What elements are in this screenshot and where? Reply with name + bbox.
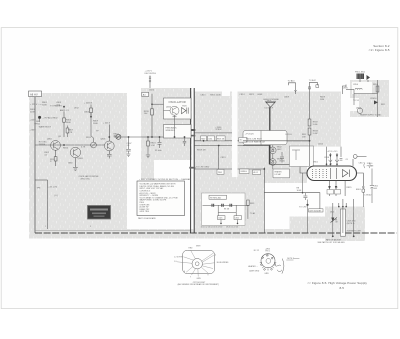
node dot at x=91: [90, 116, 92, 118]
rectifier V802 (upper circle): [270, 141, 277, 159]
board lower edge line: [35, 229, 191, 231]
svg-text:TO V1: TO V1: [353, 100, 360, 102]
CRT rear-view outline: [183, 250, 215, 273]
svg-text:+165V: +165V: [30, 130, 37, 132]
svg-text:19 20 21 22 23: 19 20 21 22 23: [226, 227, 238, 229]
wire: right lead: [353, 207, 355, 236]
notes box: [137, 181, 185, 216]
wire: +225V drop to Q805 collector node: [108, 125, 110, 138]
wire: multiplier left lead down to cathode line: [302, 173, 304, 193]
svg-text:V899: V899: [196, 246, 200, 248]
svg-text:TO A10: TO A10: [288, 80, 296, 83]
wire: Q820 emitter: [173, 115, 177, 137]
pot R846 (dark): [331, 218, 334, 223]
svg-text:Q805: Q805: [101, 139, 107, 141]
wire: second bus across focus box: [243, 145, 270, 147]
svg-text:+ 225 V —•—: + 225 V —•—: [30, 104, 43, 106]
inner label tag: [209, 195, 227, 199]
svg-text:TP801: TP801: [34, 124, 41, 126]
capacitor C806: [280, 152, 284, 163]
transistor Q803: [70, 147, 80, 157]
anode curl: [353, 155, 357, 159]
svg-text:(HV) OSC: (HV) OSC: [81, 178, 91, 180]
svg-text:T820: T820: [182, 105, 188, 107]
gray region: top-right block: [350, 80, 389, 117]
svg-text:10 11 12 13 14 15 16 17 18: 10 11 12 13 14 15 16 17 18: [201, 227, 223, 229]
svg-text:HEATER: HEATER: [275, 170, 283, 173]
svg-text:TP802: TP802: [215, 129, 222, 131]
svg-text:E801: E801: [356, 189, 362, 191]
diode pair D2: [222, 204, 224, 207]
svg-text:ADJ: ADJ: [114, 135, 118, 138]
wire: Q803 emitter down with ground: [74, 158, 76, 167]
svg-text:R810: R810: [63, 147, 69, 149]
svg-text:PIN 1: PIN 1: [265, 251, 269, 253]
svg-text:GND: GND: [68, 162, 73, 164]
svg-text:( 0 ): ( 0 ): [54, 195, 58, 197]
resistor R836 stack: [309, 94, 311, 119]
resistor right of detail box: [247, 200, 250, 206]
wire: lower-left return lines: [47, 180, 49, 229]
svg-text:TO CRT GRID: TO CRT GRID: [196, 166, 210, 168]
transistor Q820 (oscillator): [164, 106, 180, 115]
svg-text:R818 1M: R818 1M: [217, 138, 225, 140]
spark gap E801: [362, 186, 365, 192]
component tag R818: [216, 136, 225, 141]
transformer T820 symbol: [182, 108, 187, 114]
focus network box: [243, 131, 287, 145]
svg-text:R819 1M: R819 1M: [197, 149, 206, 151]
tag D: [234, 216, 242, 220]
transistor Q805: [104, 141, 114, 151]
svg-text:C822: C822: [235, 218, 239, 220]
row of connector label tags: [217, 169, 224, 174]
svg-text:9: 9: [208, 274, 209, 276]
connector P801 (hatched plug): [357, 74, 365, 80]
svg-text:1 2 3 HTR: 1 2 3 HTR: [174, 256, 183, 258]
assembly label box A8: [29, 91, 42, 97]
node dot at x=128.5 on bus: [128, 136, 130, 138]
svg-text:6: 6: [184, 271, 185, 273]
svg-text:1: 1: [45, 226, 46, 228]
wire: +225V feed at x=91: [90, 105, 92, 109]
svg-text:A8 HV: A8 HV: [30, 92, 38, 96]
diode pair D3: [230, 204, 232, 207]
svg-text:+ SEE SCHEMATIC NOTES IN SECTI: + SEE SCHEMATIC NOTES IN SECTION — DIAGR…: [139, 178, 191, 181]
wire: lower bus right to multiplier: [270, 164, 308, 173]
svg-text:R851: R851: [381, 104, 385, 106]
svg-text:680K: 680K: [258, 94, 263, 96]
svg-text:R821: R821: [249, 94, 255, 96]
detail box internals: [203, 195, 250, 223]
svg-text:HEATER SUPPLY 6.3 VAC: HEATER SUPPLY 6.3 VAC: [360, 113, 382, 116]
svg-text:HV REG ADJ: HV REG ADJ: [210, 196, 221, 199]
svg-text:A5 J2: A5 J2: [254, 171, 259, 174]
svg-text:55 kHz: 55 kHz: [155, 150, 162, 152]
HV multiplier tube V801 (stadium shell): [307, 166, 357, 181]
svg-text:22M: 22M: [302, 137, 306, 139]
capacitor C807 on x=128.5: [128, 137, 130, 149]
svg-text:4.7K: 4.7K: [81, 146, 86, 148]
arrow into P801: [367, 75, 371, 80]
label plate (dark): [88, 206, 111, 220]
svg-text:R812: R812: [86, 137, 92, 139]
bottom-right: junction dot and leads: [306, 204, 308, 206]
connector pin marks on bar: [189, 129, 195, 131]
svg-text:FOCUS: FOCUS: [286, 134, 293, 136]
wire: TP level line: [195, 132, 233, 134]
svg-text:GRN: GRN: [264, 273, 269, 275]
capacitor C801 feed from Q801 emitter: [55, 150, 57, 156]
svg-text:DRIVE: DRIVE: [39, 144, 46, 146]
svg-text:C846: C846: [330, 211, 334, 213]
connector stub P803-3: [343, 85, 347, 95]
frame: left border wire: [34, 97, 36, 233]
wires inside top-right block: [354, 80, 378, 117]
wire: loop: [218, 205, 236, 212]
text layer: [30, 44, 390, 229]
svg-text:DECOUPLE: DECOUPLE: [145, 73, 157, 75]
closing bracket: [282, 259, 284, 274]
wire: center block drop: [218, 146, 220, 170]
svg-text:(AS VIEWED FROM REAR OF INSTRU: (AS VIEWED FROM REAR OF INSTRUMENT): [178, 283, 220, 286]
svg-text:R817: R817: [201, 138, 205, 140]
svg-text:TO CRT: TO CRT: [299, 206, 307, 208]
svg-text:1.5K: 1.5K: [151, 145, 156, 147]
junction dots at B7 top: [338, 206, 340, 208]
svg-text:7: 7: [190, 277, 191, 279]
socket right leads: [275, 265, 281, 266]
pot wiper dot R802: [38, 116, 41, 119]
svg-text:RED: RED: [189, 248, 194, 250]
svg-text:C811: C811: [208, 138, 212, 140]
wire: Q805 collector to bus: [108, 137, 110, 141]
probe bracket: [364, 163, 370, 169]
socket label tag: [309, 209, 324, 212]
svg-text:6.3 VAC: 6.3 VAC: [275, 173, 282, 176]
svg-text:CRT SOCKET: CRT SOCKET: [309, 210, 322, 212]
svg-text:+225V: +225V: [30, 119, 37, 121]
node A4 label box (middle block): [142, 92, 149, 96]
svg-text:INTENSITY LIMIT: INTENSITY LIMIT: [347, 230, 361, 232]
gray shaded circuit-board region: left block: [29, 93, 127, 229]
svg-text:2: 2: [215, 254, 216, 256]
svg-text:WINDING: WINDING: [166, 130, 176, 132]
svg-text:R839: R839: [250, 203, 254, 205]
svg-text:C850: C850: [353, 84, 359, 86]
svg-text:C810: C810: [200, 94, 206, 96]
svg-text:TO HEATER: TO HEATER: [50, 104, 62, 107]
CRT neck circle: [192, 259, 202, 269]
wire: V801 anode out right: [357, 173, 364, 186]
svg-text:C 8502: C 8502: [364, 195, 372, 197]
svg-text:C820: C820: [149, 90, 155, 92]
arrow feed into R805: [63, 106, 65, 109]
capacitor C824: [303, 193, 307, 200]
svg-text:+33 +075: +33 +075: [48, 187, 58, 189]
CRT bias channel box (white strip): [340, 209, 345, 236]
resistor R805 (vertical, on x=64 feed): [63, 111, 65, 137]
capacitor C823: [158, 137, 162, 148]
text layer 2: center and right labels: [196, 71, 385, 241]
svg-text:BLUE WIRES: BLUE WIRES: [217, 262, 229, 264]
svg-text:100K: 100K: [297, 190, 302, 192]
capacitor C812 branch: [370, 169, 374, 204]
svg-text:5.6M: 5.6M: [313, 124, 318, 126]
svg-text:<< Figure 8-5. High Voltage Po: << Figure 8-5. High Voltage Power Supply: [307, 281, 367, 285]
svg-text:P805: P805: [218, 172, 222, 174]
svg-text:(NOTE 2): (NOTE 2): [347, 223, 355, 225]
svg-text:8-2 kV P-P: 8-2 kV P-P: [265, 108, 274, 110]
resistor R820 (middle block top feed): [151, 94, 153, 109]
svg-text:Q820: Q820: [166, 106, 172, 108]
svg-text:<1> Figure 8-5: <1> Figure 8-5: [369, 48, 390, 52]
svg-text:C809: C809: [284, 97, 290, 99]
svg-text:C816: C816: [324, 157, 330, 159]
svg-text:P801 J801: P801 J801: [355, 71, 366, 73]
svg-text:10M: 10M: [320, 99, 324, 101]
svg-text:→ HV ADJ R802: → HV ADJ R802: [42, 117, 58, 120]
wire: V801 grid feeds with arrows: [327, 147, 342, 166]
svg-text:R850: R850: [373, 84, 379, 86]
wire: lower bus center: [195, 168, 265, 170]
wire: CRT cathode line: [264, 193, 320, 209]
gray region: right wide block: [238, 92, 342, 142]
oscillator box: [164, 98, 192, 119]
wire: P801 leads: [360, 79, 368, 82]
gray region: bottom-right blocks: [290, 217, 326, 239]
svg-text:5642: 5642: [277, 149, 282, 151]
svg-text:10K: 10K: [144, 113, 148, 115]
svg-text:UNREG: UNREG: [241, 171, 248, 173]
pot R814 (variable resistor circle): [116, 134, 121, 139]
wire: main row: [203, 204, 250, 206]
svg-text:NOTE 3: NOTE 3: [287, 258, 294, 260]
transistor Q850: [357, 108, 362, 113]
svg-text:+1950: +1950: [215, 127, 222, 129]
svg-text:R825 2.2M R827: R825 2.2M R827: [246, 139, 263, 141]
svg-text:HIGH VOLTAGE: HIGH VOLTAGE: [264, 98, 280, 101]
wire: Q805 emitter down + cap + ground: [108, 151, 110, 154]
svg-text:PROBE: PROBE: [367, 166, 374, 168]
svg-text:PART OF A8 ASSY: PART OF A8 ASSY: [326, 238, 342, 241]
transistor Q801: [51, 141, 61, 151]
cathode cup symbols on feeds: [329, 159, 343, 162]
svg-text:PART OF A8 BOARD: PART OF A8 BOARD: [138, 217, 157, 220]
tube socket V-base circle: [261, 254, 275, 268]
wire: +225V stub above middle block: [149, 76, 151, 89]
svg-text:+ 225 V: + 225 V: [103, 123, 111, 125]
svg-text:+ FOCUS: + FOCUS: [245, 134, 255, 136]
svg-text:GRN: GRN: [197, 278, 202, 280]
tag C: [218, 216, 226, 220]
svg-text:FEEDBACK: FEEDBACK: [166, 127, 178, 130]
V801 internal anode diode: [343, 170, 350, 177]
interconnect bar (double vertical wire): [190, 88, 192, 233]
svg-text:C813: C813: [221, 157, 227, 159]
connector stub P803-2: [310, 82, 318, 94]
gray region: middle oscillator block: [141, 88, 192, 160]
svg-text:100K: 100K: [93, 123, 98, 125]
top-right block white cutouts: [352, 82, 372, 94]
svg-text:GRID TRIG: GRID TRIG: [140, 211, 150, 213]
svg-text:220K: 220K: [30, 111, 35, 113]
svg-text:5.6M: 5.6M: [313, 133, 318, 135]
svg-text:1 0: 1 0: [174, 261, 177, 263]
connector stub P803-1: [288, 83, 295, 94]
svg-text:1M: 1M: [36, 121, 39, 123]
svg-text:R8 1M: R8 1M: [224, 208, 230, 210]
wire: mid lead in strip: [342, 207, 344, 234]
svg-text:560K: 560K: [66, 122, 71, 124]
diode pair D1: [212, 204, 214, 207]
filter box (white, right of rectifiers): [290, 146, 314, 167]
gray region: center block: [194, 92, 232, 234]
gray region: bottom strip: [29, 229, 308, 239]
wire: V801 bottom leads with arrows: [330, 181, 354, 208]
V801 internal cathode dots: [312, 169, 327, 178]
svg-text:FOCUS RANGE 1M: FOCUS RANGE 1M: [246, 140, 265, 143]
svg-text:OSCILLATOR: OSCILLATOR: [169, 100, 186, 104]
svg-text:C815: C815: [318, 144, 324, 146]
svg-text:+ 225XX: + 225XX: [84, 103, 93, 105]
svg-text:8-5: 8-5: [340, 286, 345, 290]
CRT pin rays: [177, 250, 215, 277]
svg-text:V801: V801: [313, 161, 319, 163]
diode CR850: [374, 100, 378, 104]
resistor R823 below bus: [147, 137, 149, 141]
svg-text:C814: C814: [240, 94, 246, 96]
high voltage transformer T801 core: [266, 102, 275, 107]
V801 internal grid bars: [331, 168, 337, 179]
wire: main bus left (node B1): [35, 144, 105, 146]
svg-text:TO A9: TO A9: [250, 212, 255, 215]
svg-text:Q801: Q801: [47, 138, 53, 140]
svg-text:C817: C817: [359, 163, 365, 165]
resistor R807: [67, 126, 69, 138]
svg-text:4.7K: 4.7K: [68, 132, 73, 134]
svg-text:100K: 100K: [42, 104, 47, 106]
wire: main bus center-right: [195, 140, 311, 142]
wire: bus from Q3 to middle block: [114, 136, 191, 138]
svg-text:Q850: Q850: [356, 108, 362, 110]
white notch in center block top: [222, 92, 230, 97]
bottom dots: [332, 235, 334, 237]
svg-text:SEE PARTS LIST FOR VALUES: SEE PARTS LIST FOR VALUES: [318, 241, 346, 244]
white gap column: [232, 92, 238, 178]
pot R809 (variable, on bus): [91, 113, 94, 142]
component tag C811: [208, 136, 215, 141]
wire: left bias lead: [332, 207, 334, 236]
wire: vertical right of detail box: [263, 168, 265, 234]
text layer 3: bottom diagrams: [174, 241, 346, 286]
intensity detail box: [202, 193, 246, 225]
svg-text:CR850: CR850: [370, 98, 377, 100]
svg-text:3: 3: [90, 226, 91, 228]
wire inside filter box: [292, 150, 300, 160]
oscillator sub box: [164, 125, 192, 139]
svg-text:HEATER →: HEATER →: [248, 265, 258, 268]
svg-text:TO A12: TO A12: [309, 79, 317, 82]
resistor R850: [376, 86, 379, 92]
heater label box: [273, 169, 290, 178]
component tag R817: [201, 136, 207, 141]
svg-text:C805: C805: [84, 111, 90, 113]
wire: second bus center: [195, 145, 270, 147]
svg-text:R815 220K: R815 220K: [210, 94, 221, 96]
svg-text:C821: C821: [218, 218, 222, 220]
svg-text:WAVE BODY: WAVE BODY: [39, 125, 52, 128]
svg-text:Q803: Q803: [78, 158, 84, 160]
frame: bottom bus wire (dashed): [35, 232, 397, 234]
svg-text:R835: R835: [347, 187, 353, 189]
wire: link from main board to top-right block: [346, 89, 354, 91]
wire: bus re-drawn across focus box: [243, 140, 311, 142]
svg-text:C8: C8: [346, 159, 348, 161]
svg-text:NC 12: NC 12: [254, 250, 259, 252]
svg-text:.005: .005: [374, 188, 378, 190]
svg-text:AMPL C1: AMPL C1: [60, 109, 70, 112]
rectifier V803 (lower circle): [270, 159, 277, 169]
node dot at x=64 on bus: [63, 144, 65, 146]
svg-text:CATH GRID: CATH GRID: [249, 270, 260, 273]
svg-text:+67 20 +70 5: +67 20 +70 5: [327, 151, 338, 153]
wire: V801 anode lead up: [352, 159, 354, 166]
socket pin ticks: [260, 254, 276, 270]
label tags below V801: [327, 190, 334, 195]
svg-text:C8 015: C8 015: [279, 160, 285, 162]
wire: T801 HV lead (thick): [269, 107, 271, 164]
svg-text:T801: T801: [267, 101, 271, 103]
inductor L801 bumps: [355, 88, 362, 89]
